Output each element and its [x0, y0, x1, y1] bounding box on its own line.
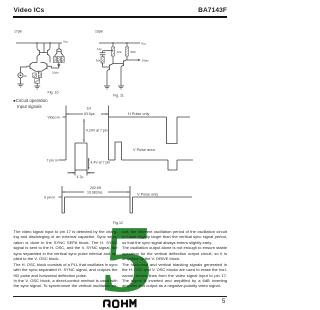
wire Q1 collector down [36, 57, 38, 63]
resistor R4 [57, 57, 60, 63]
svg-text:16pin: 16pin [95, 30, 103, 34]
node dot A [36, 42, 37, 43]
row2 down pulse [168, 160, 193, 170]
wire Q7 emitter down [106, 71, 108, 86]
wire Q7 collector [112, 56, 114, 64]
svg-text:4.4V at 7 pin: 4.4V at 7 pin [91, 161, 111, 165]
resistor 500 [125, 47, 128, 56]
node dot D [126, 42, 127, 43]
ground G2 [18, 84, 24, 87]
wire branch 2 [126, 43, 128, 47]
svg-text:Fig. 11: Fig. 11 [113, 94, 124, 98]
wire Q1 emitter [36, 43, 38, 49]
wire cap top [103, 50, 113, 52]
svg-text:50k: 50k [96, 59, 101, 63]
transistor Q3 [27, 63, 36, 72]
wire input left [21, 67, 28, 73]
row3 pulse2 [130, 186, 133, 213]
ROHM logo [102, 299, 138, 308]
page number [222, 299, 225, 305]
wire row1 stub [63, 116, 67, 118]
header right: BA7143F [198, 7, 227, 14]
wire Q8 collector [126, 56, 128, 60]
wire to ground [36, 83, 38, 86]
capacitor C1 [100, 51, 106, 57]
ground G1 [34, 86, 40, 89]
wire cap branch to base [103, 63, 107, 67]
svg-text:7 pin in: 7 pin in [47, 158, 58, 162]
svg-text:H Pulse only: H Pulse only [128, 112, 149, 116]
dimension 1H arrows [66, 113, 83, 115]
body text left column [14, 229, 118, 289]
dimension 262.5H [62, 191, 130, 193]
wire row2 mid2 [122, 159, 169, 161]
Vcc rail [16, 42, 62, 44]
wire pin to ground [20, 78, 22, 84]
wire row1 left edge [65, 106, 67, 161]
resistor 12k [111, 47, 114, 56]
Vcc rail right [99, 42, 140, 44]
svg-text:2k: 2k [24, 74, 27, 78]
transistor Q4 [42, 63, 52, 72]
resistor R5 [61, 57, 64, 63]
wire base tie [43, 43, 45, 53]
wire emitter join [36, 71, 42, 73]
wire cluster verticals [55, 56, 63, 57]
row1 H pulse [167, 117, 191, 144]
wire Q4 collector [41, 62, 45, 64]
svg-text:4.7μ: 4.7μ [77, 175, 84, 179]
vertical arrow 0.29V [83, 119, 85, 142]
transistor Q5 [55, 48, 61, 55]
wire base Q8 [113, 63, 124, 65]
green watermark digit 5 [0, 0, 240, 310]
input pin terminal [18, 73, 23, 78]
wire Q2 collector down [49, 57, 51, 63]
resistor 2k right [38, 73, 41, 78]
vertical arrow 4.4V [88, 158, 90, 170]
row3 pulse1 [62, 186, 65, 213]
transistor Q8 [121, 60, 127, 68]
wire row3 right [133, 196, 193, 198]
svg-text:V Pulse area: V Pulse area [133, 148, 156, 152]
node dot C [112, 42, 113, 43]
footer rule [13, 295, 227, 298]
resistor 2k left [33, 73, 36, 78]
transistor Q2 [44, 49, 50, 57]
bullet: Circuit operation [13, 98, 48, 103]
wire branch 1 [112, 43, 114, 47]
wire Q2 emitter [49, 43, 51, 49]
svg-text:Vcc: Vcc [141, 42, 147, 46]
body text right column [122, 229, 227, 289]
header rule [13, 16, 227, 18]
svg-text:14pin: 14pin [142, 59, 150, 63]
transistor Q7 [107, 64, 113, 72]
svg-text:Fig. 10: Fig. 10 [48, 91, 59, 95]
wire row3 mid [65, 196, 131, 198]
wire row1 top right [109, 116, 167, 118]
node dot B [49, 42, 50, 43]
dimension arrows 4.7us [68, 172, 95, 174]
ground G4 [118, 86, 124, 89]
svg-text:12k: 12k [117, 50, 122, 54]
svg-text:16pin: 16pin [52, 71, 59, 75]
svg-text:17pin: 17pin [14, 30, 22, 34]
svg-text:Video in: Video in [48, 115, 61, 119]
row2 small pulse [115, 142, 122, 160]
diode D1 [58, 63, 60, 69]
transistor Q6 [59, 48, 63, 55]
svg-text:Vcc: Vcc [63, 40, 69, 44]
svg-text:0.29V at 7 pin: 0.29V at 7 pin [86, 128, 108, 132]
dimension ticks 4.7us [75, 170, 87, 176]
wire Q4 base right [52, 66, 60, 68]
svg-text:1H: 1H [87, 107, 92, 111]
slice window rect [75, 143, 87, 170]
wire row2 stub [59, 159, 67, 161]
svg-text:16.683ms: 16.683ms [87, 190, 103, 194]
svg-text:500: 500 [131, 50, 136, 54]
svg-text:9 pin in: 9 pin in [44, 195, 55, 199]
wire row2 mid [109, 159, 116, 161]
wire row3 stub [59, 196, 63, 198]
wire row1 right edge [108, 106, 110, 161]
header left: Video ICs [14, 7, 45, 14]
wire Q3 collector [33, 62, 38, 64]
wire Q8 emitter down [120, 67, 122, 86]
resistor 50k [101, 57, 104, 64]
wire right cluster from rail [58, 43, 60, 48]
ground G3 [104, 86, 110, 89]
svg-text:12μ: 12μ [97, 47, 102, 51]
output wire with arrow [127, 59, 138, 61]
transistor Q1 [37, 49, 44, 57]
svg-text:Fig.12: Fig.12 [113, 221, 123, 225]
current source I1 [35, 79, 40, 84]
svg-text:63.5μs: 63.5μs [84, 112, 95, 116]
svg-text:V Pulse only: V Pulse only [137, 192, 158, 196]
svg-text:262.5H: 262.5H [90, 186, 102, 190]
resistor R3 [53, 57, 56, 63]
